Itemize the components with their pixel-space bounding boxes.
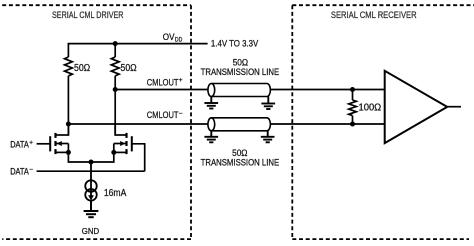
- label CMLOUT-: [147, 110, 183, 121]
- transistor Q2 (right NMOS, mirrored): [114, 124, 132, 154]
- wire source coupling: [68, 152, 113, 162]
- wire top line to receiver: [271, 89, 385, 91]
- ground T2 right: [261, 131, 275, 143]
- node junction dot 100ohm top: [350, 87, 355, 92]
- wire bottom line to receiver: [271, 123, 385, 125]
- label DATA-: [10, 166, 33, 176]
- svg-text:TRANSMISSION LINE: TRANSMISSION LINE: [201, 158, 280, 168]
- ground T2 left: [204, 131, 218, 143]
- svg-text:DD: DD: [175, 36, 183, 43]
- node junction dot 100ohm bottom: [350, 122, 355, 127]
- wire CMLOUT-: [68, 123, 208, 125]
- svg-text:SERIAL CML DRIVER: SERIAL CML DRIVER: [52, 10, 124, 21]
- node junction dot Q1 source: [66, 150, 71, 155]
- svg-text:CMLOUT: CMLOUT: [147, 110, 179, 121]
- svg-text:50Ω: 50Ω: [121, 63, 138, 74]
- svg-text:GND: GND: [82, 226, 99, 236]
- svg-text:DATA: DATA: [10, 167, 29, 177]
- ground current source: [84, 200, 99, 217]
- label OVDD: [163, 32, 183, 44]
- label DATA+: [10, 139, 33, 149]
- svg-text:16mA: 16mA: [104, 188, 127, 199]
- receiver box border: [292, 5, 474, 239]
- svg-text:+: +: [29, 140, 33, 147]
- wire DATA-: [37, 170, 145, 172]
- wire DATA+ lead: [37, 143, 51, 145]
- ground T1 left: [204, 97, 218, 109]
- resistor R3 100ohm: [349, 90, 357, 125]
- svg-text:100Ω: 100Ω: [359, 103, 382, 114]
- transistor Q1 (left NMOS): [50, 124, 68, 154]
- svg-text:TRANSMISSION LINE: TRANSMISSION LINE: [201, 67, 280, 77]
- node junction dot Q2 source: [111, 150, 116, 155]
- node junction dot CMLOUT-: [66, 122, 71, 127]
- node junction dot tail: [89, 160, 94, 165]
- transmission line T1 body (top coax): [208, 84, 270, 97]
- svg-text:−: −: [29, 166, 33, 173]
- current source I1 16mA: [85, 162, 97, 201]
- node junction dot R2 top: [113, 41, 118, 46]
- svg-text:1.4V TO 3.3V: 1.4V TO 3.3V: [211, 39, 259, 50]
- svg-text:−: −: [179, 110, 183, 117]
- op-amp U1 receiver amplifier: [385, 71, 448, 143]
- svg-text:50Ω: 50Ω: [74, 63, 91, 74]
- node junction dot CMLOUT+: [113, 87, 118, 92]
- driver box border: [2, 5, 191, 239]
- resistor R1 50ohm left: [65, 44, 73, 136]
- ground T1 right: [261, 97, 275, 110]
- svg-text:DATA: DATA: [10, 139, 29, 149]
- wire CMLOUT+: [115, 89, 208, 91]
- resistor R2 50ohm right: [111, 44, 119, 136]
- wire Q2 gate to DATA-: [132, 144, 145, 171]
- transmission line T2 body (bottom coax): [208, 118, 270, 131]
- svg-text:+: +: [179, 77, 183, 84]
- svg-text:OV: OV: [163, 32, 175, 42]
- svg-text:CMLOUT: CMLOUT: [147, 77, 179, 88]
- wire op-amp output: [447, 106, 461, 108]
- label CMLOUT+: [147, 77, 183, 88]
- node OVDD rail wire: [68, 43, 208, 45]
- svg-text:SERIAL CML RECEIVER: SERIAL CML RECEIVER: [331, 10, 417, 21]
